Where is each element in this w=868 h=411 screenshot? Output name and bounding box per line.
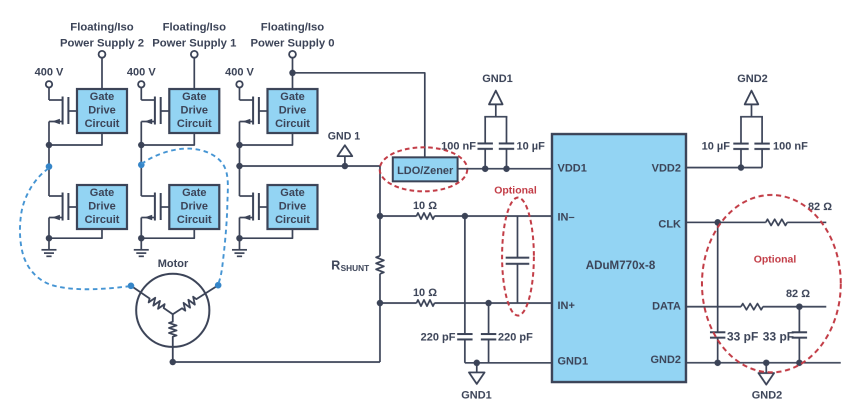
svg-text:Floating/Iso: Floating/Iso: [163, 21, 226, 33]
svg-text:Floating/Iso: Floating/Iso: [261, 21, 324, 33]
svg-text:GND2: GND2: [737, 73, 768, 85]
svg-text:Circuit: Circuit: [85, 214, 120, 226]
svg-text:100 nF: 100 nF: [441, 140, 476, 152]
svg-text:GND1: GND1: [461, 389, 492, 401]
svg-text:Circuit: Circuit: [275, 214, 310, 226]
svg-text:Gate: Gate: [280, 91, 304, 103]
svg-text:400 V: 400 V: [127, 67, 156, 79]
svg-text:33 pF: 33 pF: [727, 330, 758, 344]
svg-text:Drive: Drive: [279, 105, 307, 117]
svg-text:GND1: GND1: [482, 73, 513, 85]
svg-text:Power Supply 2: Power Supply 2: [60, 37, 144, 49]
svg-text:Drive: Drive: [181, 105, 209, 117]
svg-text:GND2: GND2: [650, 354, 681, 366]
svg-text:Optional: Optional: [494, 184, 537, 196]
svg-text:Gate: Gate: [182, 91, 206, 103]
svg-text:10 µF: 10 µF: [516, 140, 545, 152]
svg-text:Optional: Optional: [754, 253, 797, 265]
svg-text:Drive: Drive: [181, 201, 209, 213]
svg-text:Gate: Gate: [280, 187, 304, 199]
svg-text:VDD2: VDD2: [652, 162, 681, 174]
svg-text:IN+: IN+: [557, 300, 574, 312]
svg-text:400 V: 400 V: [225, 67, 254, 79]
svg-text:Floating/Iso: Floating/Iso: [70, 21, 133, 33]
svg-text:IN–: IN–: [557, 211, 574, 223]
svg-text:Motor: Motor: [158, 258, 189, 270]
svg-text:82 Ω: 82 Ω: [786, 288, 810, 300]
svg-text:VDD1: VDD1: [557, 162, 586, 174]
svg-text:Drive: Drive: [88, 201, 116, 213]
svg-text:Gate: Gate: [182, 187, 206, 199]
svg-text:Drive: Drive: [279, 201, 307, 213]
svg-text:Power Supply 0: Power Supply 0: [250, 37, 334, 49]
svg-text:GND2: GND2: [752, 389, 783, 401]
svg-text:Circuit: Circuit: [85, 118, 120, 130]
svg-text:LDO/Zener: LDO/Zener: [397, 165, 454, 177]
svg-text:ADuM770x-8: ADuM770x-8: [586, 259, 656, 272]
svg-text:33 pF: 33 pF: [763, 330, 794, 344]
svg-text:Circuit: Circuit: [177, 214, 212, 226]
svg-text:10 Ω: 10 Ω: [413, 287, 437, 299]
svg-text:CLK: CLK: [658, 219, 681, 231]
svg-text:SHUNT: SHUNT: [341, 263, 370, 273]
svg-text:R: R: [331, 258, 340, 272]
svg-text:220 pF: 220 pF: [421, 331, 456, 343]
svg-text:Circuit: Circuit: [177, 118, 212, 130]
svg-text:400 V: 400 V: [35, 67, 64, 79]
svg-text:GND1: GND1: [557, 355, 588, 367]
svg-text:Circuit: Circuit: [275, 118, 310, 130]
svg-text:220 pF: 220 pF: [498, 331, 533, 343]
svg-text:Drive: Drive: [88, 105, 116, 117]
svg-text:10 µF: 10 µF: [702, 140, 731, 152]
svg-text:Gate: Gate: [90, 187, 114, 199]
svg-text:10 Ω: 10 Ω: [413, 200, 437, 212]
svg-text:DATA: DATA: [652, 301, 681, 313]
svg-text:Gate: Gate: [90, 91, 114, 103]
svg-text:GND 1: GND 1: [328, 131, 360, 143]
svg-text:100 nF: 100 nF: [773, 140, 808, 152]
svg-text:Power Supply 1: Power Supply 1: [152, 37, 236, 49]
